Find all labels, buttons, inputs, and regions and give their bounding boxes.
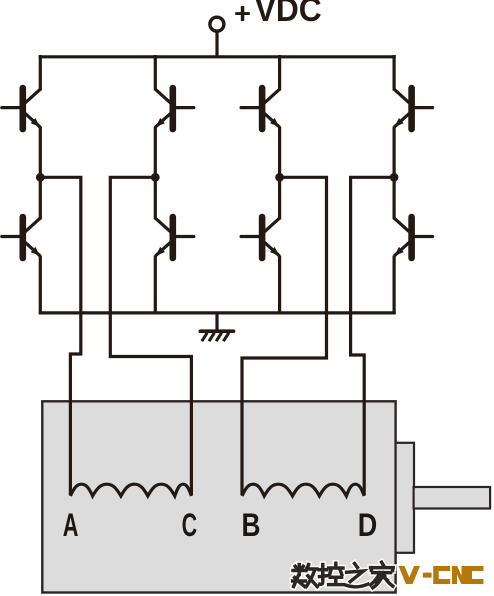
wire: collector of Q1 to VDC bus [39, 55, 42, 91]
svg-text:C: C [182, 507, 198, 543]
wire: emitter of Q8 to ground bus [393, 256, 396, 314]
wire: half-bridge 3 midpoint column [278, 127, 281, 220]
label + VDC [235, 0, 321, 29]
transistor Q5 [2, 217, 41, 258]
svg-text:A: A [63, 507, 79, 543]
transistor Q2 [155, 88, 194, 129]
junction node 4 [390, 173, 399, 182]
wire: bridge 3 output to motor terminal B [242, 177, 327, 495]
motor body [42, 401, 395, 592]
svg-text:VDC: VDC [255, 0, 322, 29]
wire: emitter of Q6 to ground bus [154, 256, 157, 314]
wire: half-bridge 1 midpoint column [39, 127, 42, 220]
wire: emitter of Q5 to ground bus [39, 256, 42, 314]
transistor Q6 [155, 217, 194, 258]
+VDC terminal [210, 17, 224, 31]
wire: bottom ground bus [39, 311, 396, 314]
transistor Q3 [241, 88, 280, 129]
transistor Q8 [394, 217, 433, 258]
wire: VDC feed [215, 31, 218, 58]
motor shaft [414, 487, 491, 509]
wire: bridge 4 output to motor terminal D [351, 177, 395, 495]
winding B-D [242, 484, 364, 496]
ground [200, 313, 233, 341]
wire: collector of Q4 to VDC bus [393, 55, 396, 91]
wire: emitter of Q7 to ground bus [278, 256, 281, 314]
svg-text:D: D [358, 507, 378, 543]
winding A-C [70, 484, 191, 496]
svg-text:B: B [242, 507, 261, 543]
transistor Q7 [241, 217, 280, 258]
wire: bridge 2 output to motor terminal C [110, 177, 191, 495]
watermark 数控之家 [293, 562, 394, 588]
transistor Q1 [2, 88, 41, 129]
wire: collector of Q3 to VDC bus [278, 55, 281, 91]
junction node 1 [36, 173, 45, 182]
transistor Q4 [394, 88, 433, 129]
wire: bridge 1 output to motor terminal A [40, 177, 81, 495]
wire: collector of Q2 to VDC bus [154, 55, 157, 91]
watermark V-CNC [399, 566, 484, 584]
wire: half-bridge 2 midpoint column [154, 127, 157, 220]
wire: top VDC bus [39, 55, 396, 58]
junction node 2 [151, 173, 160, 182]
wire: half-bridge 4 midpoint column [393, 127, 396, 220]
motor flange [396, 443, 414, 553]
junction node 3 [275, 173, 284, 182]
